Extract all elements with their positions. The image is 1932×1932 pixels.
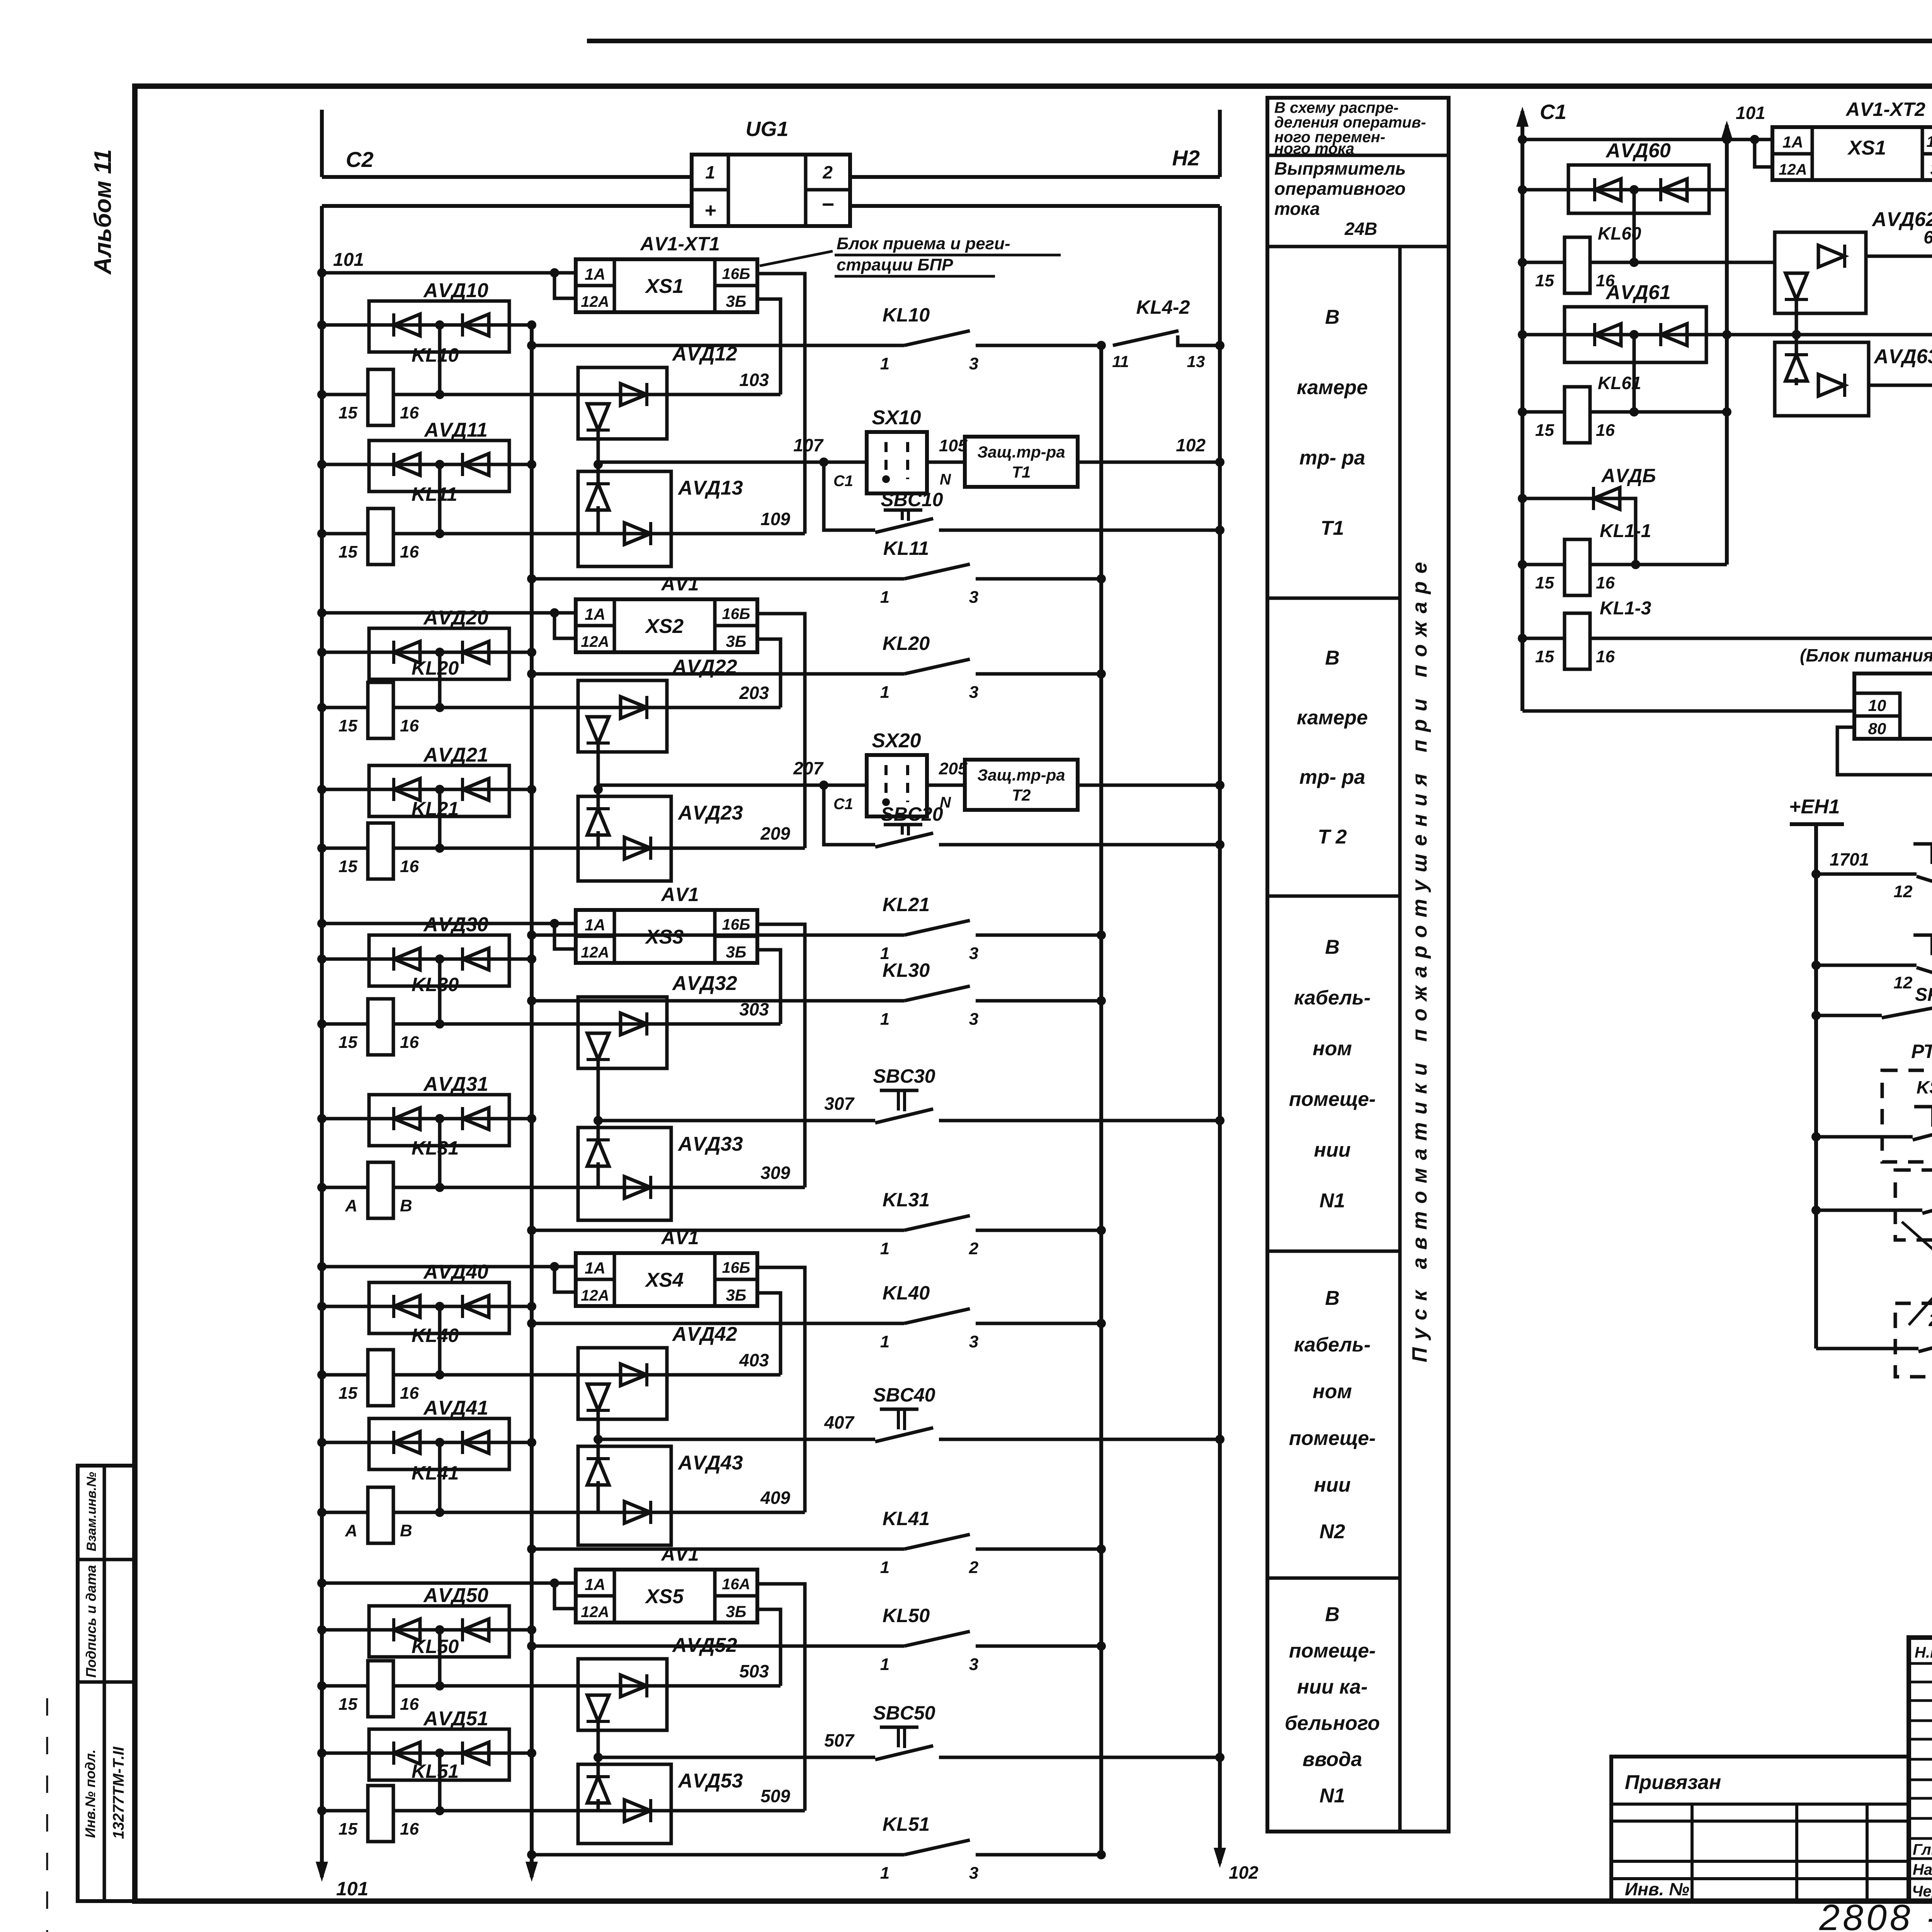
wire 16B group2 node 209 bbox=[757, 614, 805, 848]
svg-text:12: 12 bbox=[1894, 882, 1913, 901]
relay coil KL31 bbox=[317, 1137, 805, 1218]
svg-text:KL21: KL21 bbox=[883, 894, 930, 915]
svg-text:Блок приема и реги-: Блок приема и реги- bbox=[837, 234, 1010, 253]
svg-text:15: 15 bbox=[338, 857, 357, 876]
diode block AVD60 bbox=[1518, 139, 1727, 262]
svg-text:АVД53: АVД53 bbox=[677, 1770, 743, 1792]
svg-text:101: 101 bbox=[333, 250, 364, 270]
svg-text:В: В bbox=[400, 1196, 412, 1215]
svg-text:KL41: KL41 bbox=[412, 1462, 459, 1484]
left bus 101 bbox=[316, 206, 368, 1900]
svg-text:АVД13: АVД13 bbox=[677, 477, 743, 499]
svg-text:SBC10: SBC10 bbox=[881, 489, 943, 510]
svg-text:KL51: KL51 bbox=[412, 1760, 459, 1782]
svg-text:ввода: ввода bbox=[1303, 1748, 1362, 1771]
svg-text:12А: 12А bbox=[1779, 161, 1807, 178]
svg-text:KL4-2: KL4-2 bbox=[1136, 296, 1190, 318]
svg-text:103: 103 bbox=[739, 370, 769, 390]
svg-text:N1: N1 bbox=[1320, 1784, 1345, 1807]
svg-text:16А: 16А bbox=[722, 1576, 750, 1593]
svg-text:АVД31: АVД31 bbox=[423, 1073, 488, 1095]
svg-text:XS3: XS3 bbox=[645, 926, 684, 948]
svg-text:АVДБ: АVДБ bbox=[1601, 465, 1656, 486]
wire L1 group2 to XS2 bbox=[317, 608, 576, 638]
diode block АVД30 bbox=[317, 913, 536, 1024]
svg-text:3: 3 bbox=[969, 1332, 978, 1351]
contact KL1-3 12-14 wire 1701 bbox=[1811, 827, 1932, 901]
diode block АVД12 bbox=[578, 343, 737, 469]
diode block АVД53 bbox=[578, 1757, 743, 1844]
svg-text:407: 407 bbox=[824, 1412, 855, 1432]
svg-text:3Б: 3Б bbox=[726, 1602, 746, 1621]
svg-text:15: 15 bbox=[338, 1033, 357, 1052]
svg-text:С1: С1 bbox=[833, 473, 853, 490]
relay coil KL60 bbox=[1518, 223, 1775, 293]
button SBC30 node 307 bbox=[598, 1065, 1225, 1125]
svg-text:Защ.тр-ра: Защ.тр-ра bbox=[977, 443, 1065, 461]
svg-text:тр- ра: тр- ра bbox=[1299, 766, 1365, 789]
svg-text:Гл. спец: Гл. спец bbox=[1913, 1841, 1932, 1858]
svg-text:16Б: 16Б bbox=[1927, 133, 1932, 150]
svg-text:1А: 1А bbox=[585, 265, 605, 283]
svg-text:SX10: SX10 bbox=[872, 406, 921, 429]
contact KL4-2 11-13 bbox=[1112, 296, 1225, 371]
connector AV1-XT2 XS1 bbox=[1772, 99, 1932, 180]
svg-text:203: 203 bbox=[739, 683, 769, 703]
connector XS3 bbox=[576, 884, 757, 963]
svg-text:XS1: XS1 bbox=[645, 275, 684, 298]
svg-text:16: 16 bbox=[400, 1384, 419, 1403]
wire N1 from XT5 bbox=[1837, 727, 1932, 775]
svg-text:15: 15 bbox=[338, 716, 357, 735]
relay coil KL1-3 bbox=[1518, 598, 1932, 669]
switch box SX20 bbox=[598, 730, 968, 816]
svg-text:12А: 12А bbox=[581, 1604, 609, 1621]
svg-text:А: А bbox=[345, 1521, 357, 1540]
svg-text:KSV2: KSV2 bbox=[1917, 1077, 1932, 1097]
svg-text:16: 16 bbox=[400, 1695, 419, 1714]
wire 16B group5 node 509 bbox=[757, 1584, 805, 1811]
svg-text:KL11: KL11 bbox=[883, 537, 929, 559]
svg-text:АVД30: АVД30 bbox=[423, 913, 488, 936]
svg-text:Альбом 11: Альбом 11 bbox=[90, 149, 116, 275]
svg-text:101: 101 bbox=[1736, 103, 1765, 123]
contact KL10 1-3 bbox=[527, 304, 1106, 373]
diode block AVD61 bbox=[1518, 281, 1869, 412]
svg-text:Пуск автоматики пожаротушени: Пуск автоматики пожаротушения при пожаре bbox=[1408, 554, 1431, 1362]
wire 3B group4 node 403 bbox=[739, 1293, 781, 1375]
svg-text:UG1: UG1 bbox=[745, 117, 788, 141]
svg-text:307: 307 bbox=[824, 1094, 855, 1114]
switch box SX10 bbox=[598, 406, 968, 493]
button SBC50 node 507 bbox=[598, 1702, 1225, 1762]
svg-text:KL11: KL11 bbox=[412, 483, 457, 505]
svg-text:N2: N2 bbox=[1320, 1520, 1345, 1543]
relay box RT30 KSV2 bbox=[1811, 1041, 1932, 1162]
contact KL20 1-3 bbox=[527, 633, 1106, 702]
svg-text:16Б: 16Б bbox=[722, 265, 750, 282]
button SBC60 wire 607 102 bbox=[1869, 279, 1932, 339]
svg-text:SF1: SF1 bbox=[1915, 985, 1932, 1005]
left sidebar box bbox=[78, 1466, 135, 1901]
sidebar label podpis bbox=[83, 1565, 99, 1678]
relay coil KL61 bbox=[1518, 373, 1731, 443]
svg-text:3: 3 bbox=[969, 588, 978, 607]
diode AVD6 bbox=[1518, 465, 1656, 565]
svg-text:16: 16 bbox=[400, 716, 419, 735]
svg-text:3: 3 bbox=[969, 1010, 978, 1029]
svg-text:1: 1 bbox=[880, 1010, 889, 1029]
wire 3B group5 node 503 bbox=[739, 1609, 781, 1686]
protection box group2 bbox=[927, 760, 1225, 810]
node H2 bbox=[1172, 110, 1220, 177]
relay coil KL51 bbox=[317, 1760, 805, 1842]
svg-text:АVД50: АVД50 bbox=[423, 1584, 488, 1607]
svg-text:3: 3 bbox=[969, 683, 978, 702]
diode block АVД50 bbox=[317, 1584, 536, 1686]
title row N kontr bbox=[1915, 1642, 1932, 1662]
svg-text:KL61: KL61 bbox=[1598, 373, 1641, 393]
connector XS5 bbox=[576, 1543, 757, 1622]
diode block АVД22 bbox=[578, 656, 737, 794]
svg-text:1: 1 bbox=[880, 1864, 889, 1883]
svg-text:16Б: 16Б bbox=[722, 916, 750, 933]
svg-text:12А: 12А bbox=[581, 293, 609, 310]
bus 101 right bbox=[1721, 103, 1765, 565]
contact KL41 bbox=[527, 1508, 1106, 1577]
svg-text:KL21: KL21 bbox=[412, 798, 459, 820]
svg-text:камере: камере bbox=[1297, 376, 1368, 399]
svg-text:16: 16 bbox=[400, 403, 419, 422]
svg-text:1701: 1701 bbox=[1830, 849, 1869, 869]
svg-text:С1: С1 bbox=[1540, 100, 1566, 124]
svg-text:80: 80 bbox=[1868, 719, 1886, 738]
svg-text:АVД21: АVД21 bbox=[423, 744, 488, 766]
svg-text:1: 1 bbox=[880, 354, 889, 373]
svg-text:KL1-1: KL1-1 bbox=[1600, 521, 1651, 541]
legend cell 1 bbox=[1297, 306, 1368, 539]
svg-text:3Б: 3Б bbox=[726, 632, 746, 650]
svg-text:24В: 24В bbox=[1344, 219, 1377, 239]
wire L1 group4 to XS4 bbox=[317, 1262, 576, 1292]
svg-text:оперативного: оперативного bbox=[1274, 179, 1406, 199]
contact KL5 12-14 bbox=[1811, 920, 1932, 992]
svg-text:1: 1 bbox=[880, 1239, 889, 1258]
contact KL11 bbox=[527, 537, 1106, 607]
wire C1 to XT2 bbox=[1518, 135, 1772, 167]
svg-text:XS5: XS5 bbox=[645, 1585, 684, 1608]
svg-text:15: 15 bbox=[338, 403, 357, 422]
svg-text:В: В bbox=[1325, 1287, 1340, 1310]
svg-text:С1: С1 bbox=[833, 796, 853, 813]
legend header vypryamitel bbox=[1274, 158, 1406, 239]
svg-text:SBC40: SBC40 bbox=[873, 1384, 935, 1406]
svg-text:АV1: АV1 bbox=[660, 1543, 699, 1565]
relay coil KL11 bbox=[317, 483, 805, 565]
svg-text:KL20: KL20 bbox=[883, 633, 930, 654]
svg-text:KL31: KL31 bbox=[412, 1137, 459, 1159]
contact SF1 wire 907 bbox=[1811, 985, 1932, 1020]
svg-text:Инв.№ подл.: Инв.№ подл. bbox=[82, 1749, 98, 1838]
svg-text:207: 207 bbox=[793, 758, 824, 778]
relay coil KL20 bbox=[317, 657, 781, 738]
svg-text:В: В bbox=[1325, 647, 1340, 669]
svg-text:3: 3 bbox=[969, 1655, 978, 1674]
right bus 102 bbox=[1214, 206, 1259, 1883]
wire L1 group3 to XS3 bbox=[317, 919, 576, 949]
svg-text:1: 1 bbox=[705, 162, 715, 182]
svg-text:12А: 12А bbox=[581, 633, 609, 650]
svg-text:АV1-ХТ1: АV1-ХТ1 bbox=[639, 233, 720, 255]
album label bbox=[90, 149, 116, 275]
svg-text:13: 13 bbox=[1187, 352, 1205, 371]
legend cell 3 bbox=[1267, 896, 1400, 1212]
title row nach gr bbox=[1913, 1860, 1932, 1878]
contact KL51 bbox=[527, 1813, 1106, 1883]
svg-text:Подпись и дата: Подпись и дата bbox=[83, 1565, 99, 1678]
contact KL40 1-3 bbox=[527, 1282, 1106, 1351]
svg-text:АVД43: АVД43 bbox=[677, 1452, 743, 1474]
svg-text:10: 10 bbox=[1868, 696, 1886, 714]
wire 16B group1 node 109 bbox=[757, 274, 805, 534]
svg-text:209: 209 bbox=[760, 823, 790, 844]
svg-text:15: 15 bbox=[338, 543, 357, 561]
svg-text:1: 1 bbox=[880, 588, 889, 607]
svg-text:Т 2: Т 2 bbox=[1318, 826, 1347, 848]
rectifier UG1 bbox=[692, 117, 850, 226]
svg-text:С2: С2 bbox=[346, 147, 374, 172]
svg-text:А: А bbox=[345, 1196, 357, 1215]
diode block АVД10 bbox=[317, 279, 536, 395]
sidebar number 13277 bbox=[110, 1747, 127, 1839]
diode block АVД20 bbox=[317, 607, 536, 707]
svg-text:АVД33: АVД33 bbox=[677, 1133, 743, 1155]
svg-text:SBC20: SBC20 bbox=[881, 803, 943, 825]
svg-text:АVД61: АVД61 bbox=[1605, 281, 1671, 304]
legend column frame bbox=[1267, 98, 1449, 1832]
svg-text:15: 15 bbox=[1535, 647, 1554, 666]
svg-text:Выпрямитель: Выпрямитель bbox=[1274, 158, 1406, 179]
svg-text:KL50: KL50 bbox=[883, 1605, 930, 1626]
legend cell 2 bbox=[1267, 598, 1400, 848]
wire 16B group4 node 409 bbox=[757, 1267, 805, 1512]
svg-text:АVД63: АVД63 bbox=[1873, 345, 1932, 368]
svg-text:102: 102 bbox=[1176, 435, 1206, 455]
svg-text:XS4: XS4 bbox=[645, 1269, 684, 1291]
wire 3B group3 node 303 bbox=[739, 950, 781, 1024]
svg-text:АV1: АV1 bbox=[660, 1227, 699, 1248]
diode block АVД23 bbox=[578, 789, 743, 881]
svg-text:нии: нии bbox=[1314, 1474, 1351, 1496]
svg-text:Инв. №: Инв. № bbox=[1625, 1879, 1689, 1899]
svg-text:+ЕН1: +ЕН1 bbox=[1789, 796, 1840, 818]
svg-text:В: В bbox=[400, 1521, 412, 1540]
note power block AV1 bbox=[1800, 645, 1932, 665]
svg-text:15: 15 bbox=[338, 1695, 357, 1714]
wire left bus plus bbox=[322, 204, 692, 208]
svg-text:101: 101 bbox=[336, 1878, 368, 1900]
svg-text:16: 16 bbox=[400, 1033, 419, 1052]
svg-text:KL50: KL50 bbox=[412, 1636, 459, 1657]
svg-text:KL30: KL30 bbox=[412, 974, 459, 995]
svg-text:15: 15 bbox=[1535, 573, 1554, 592]
svg-text:11: 11 bbox=[1112, 352, 1129, 371]
svg-text:3Б: 3Б bbox=[1930, 160, 1932, 178]
sensor 1BL bbox=[1811, 1170, 1932, 1240]
svg-text:АV1-ХТ2: АV1-ХТ2 bbox=[1845, 99, 1925, 120]
svg-text:KL40: KL40 bbox=[412, 1325, 459, 1346]
contact KL50 1-3 bbox=[527, 1605, 1106, 1674]
svg-text:В: В bbox=[1325, 306, 1340, 328]
svg-text:15: 15 bbox=[338, 1820, 357, 1838]
button SBC20 bbox=[824, 785, 1225, 849]
relay coil KL40 bbox=[317, 1325, 781, 1406]
svg-text:ном: ном bbox=[1313, 1037, 1352, 1060]
svg-text:(Блок питания - БП) АV1 Стан: (Блок питания - БП) АV1 Станция пожарной… bbox=[1800, 645, 1932, 665]
svg-text:АVД40: АVД40 bbox=[423, 1261, 488, 1283]
svg-text:107: 107 bbox=[793, 435, 824, 455]
relay coil KL50 bbox=[317, 1636, 781, 1717]
svg-text:ном: ном bbox=[1313, 1381, 1352, 1403]
svg-text:АV1: АV1 bbox=[660, 573, 699, 595]
svg-text:509: 509 bbox=[760, 1786, 790, 1806]
node C1 bbox=[1516, 100, 1566, 711]
connector XS4 bbox=[576, 1227, 757, 1306]
svg-text:АVД20: АVД20 bbox=[423, 607, 488, 629]
svg-text:Т1: Т1 bbox=[1321, 517, 1344, 539]
svg-text:камере: камере bbox=[1297, 706, 1368, 729]
svg-text:16: 16 bbox=[400, 1820, 419, 1838]
sidebar label vzam bbox=[84, 1472, 99, 1551]
svg-text:15: 15 bbox=[1535, 271, 1554, 290]
svg-text:страции БПР: страции БПР bbox=[837, 255, 953, 274]
top border rule bbox=[587, 39, 1932, 43]
svg-text:15: 15 bbox=[338, 1384, 357, 1403]
svg-text:Привязан: Привязан bbox=[1625, 1771, 1721, 1794]
svg-text:В: В bbox=[1325, 936, 1340, 958]
diode block АVД33 bbox=[578, 1121, 743, 1220]
svg-text:кабель-: кабель- bbox=[1294, 987, 1371, 1009]
button SBC40 node 407 bbox=[598, 1384, 1225, 1444]
svg-text:KL41: KL41 bbox=[883, 1508, 930, 1529]
svg-text:16Б: 16Б bbox=[722, 1259, 750, 1276]
svg-text:12А: 12А bbox=[581, 944, 609, 961]
connector XS2 bbox=[576, 573, 757, 652]
svg-text:SX20: SX20 bbox=[872, 730, 921, 752]
svg-text:Н.контр: Н.контр bbox=[1915, 1644, 1932, 1661]
legend cell 5 bbox=[1267, 1578, 1400, 1807]
svg-text:13277ТМ-Т.II: 13277ТМ-Т.II bbox=[110, 1747, 127, 1839]
svg-text:3: 3 bbox=[969, 1864, 978, 1883]
svg-text:АVД32: АVД32 bbox=[672, 972, 737, 995]
svg-text:3Б: 3Б bbox=[726, 1286, 746, 1304]
svg-text:+: + bbox=[704, 199, 716, 222]
note sensor urovnya bbox=[1902, 1222, 1932, 1325]
svg-text:Т2: Т2 bbox=[1012, 786, 1031, 804]
svg-text:XS1: XS1 bbox=[1847, 137, 1886, 159]
wire UG1 minus to right bus bbox=[850, 204, 1220, 208]
svg-text:12А: 12А bbox=[581, 1287, 609, 1304]
svg-text:Взам.инв.№: Взам.инв.№ bbox=[84, 1472, 99, 1551]
diode block AVD63 bbox=[1775, 335, 1932, 416]
svg-text:ного тока: ного тока bbox=[1274, 140, 1354, 157]
svg-text:109: 109 bbox=[760, 509, 790, 529]
protection box group1 bbox=[927, 435, 1225, 487]
svg-text:РТ30: РТ30 bbox=[1911, 1041, 1932, 1062]
svg-text:2808 - 05: 2808 - 05 bbox=[1819, 1897, 1932, 1932]
svg-text:АVД60: АVД60 bbox=[1605, 139, 1671, 162]
svg-text:АVД62: АVД62 bbox=[1871, 208, 1932, 231]
wire UG1 to H2 bbox=[850, 175, 1220, 179]
button SBC10 bbox=[824, 462, 1225, 535]
svg-text:Т1: Т1 bbox=[1012, 463, 1031, 481]
relay coil KL41 bbox=[317, 1462, 805, 1543]
svg-text:16: 16 bbox=[1596, 573, 1615, 592]
svg-text:KL20: KL20 bbox=[412, 657, 459, 679]
note BPR bbox=[760, 234, 1061, 276]
node C2 bbox=[322, 110, 374, 177]
diode block АVД42 bbox=[578, 1323, 737, 1444]
svg-text:1А: 1А bbox=[585, 605, 605, 623]
svg-text:KL40: KL40 bbox=[883, 1282, 930, 1304]
svg-text:1: 1 bbox=[880, 1558, 889, 1577]
svg-text:3Б: 3Б bbox=[726, 292, 746, 310]
svg-text:кабель-: кабель- bbox=[1294, 1334, 1371, 1356]
svg-text:2BL: 2BL bbox=[1929, 1310, 1932, 1330]
node +EH1 bbox=[1789, 796, 1844, 1349]
title row chert kon bbox=[1912, 1883, 1932, 1900]
svg-text:помеще-: помеще- bbox=[1289, 1088, 1376, 1111]
legend strip pusk bbox=[1408, 554, 1431, 1362]
diode block АVД40 bbox=[317, 1261, 536, 1375]
collector bus 11 bbox=[1099, 345, 1103, 1855]
diode block АVД11 bbox=[317, 419, 536, 534]
svg-text:603: 603 bbox=[1923, 227, 1932, 247]
svg-text:503: 503 bbox=[739, 1661, 769, 1681]
svg-text:N1: N1 bbox=[1320, 1190, 1345, 1212]
legend cell 4 bbox=[1267, 1251, 1400, 1543]
relay coil KL1-1 bbox=[1518, 521, 1727, 595]
diode block АVД52 bbox=[578, 1634, 737, 1762]
svg-text:16: 16 bbox=[1596, 421, 1615, 440]
wire L1 group5 to XS5 bbox=[317, 1578, 576, 1609]
svg-text:12: 12 bbox=[1894, 973, 1913, 992]
fold mark dashed line bbox=[46, 1698, 48, 1932]
diode block АVД21 bbox=[317, 744, 536, 848]
terminal block XT5 bbox=[1522, 673, 1932, 739]
svg-text:помеще-: помеще- bbox=[1289, 1639, 1376, 1662]
title privyazan table bbox=[1611, 1757, 1909, 1901]
wire 609 bbox=[1869, 356, 1932, 448]
legend header raspredeleniya bbox=[1274, 99, 1426, 157]
svg-text:АVД23: АVД23 bbox=[677, 802, 743, 824]
svg-text:403: 403 bbox=[739, 1350, 769, 1370]
svg-text:1А: 1А bbox=[585, 1259, 605, 1277]
svg-text:Н2: Н2 bbox=[1172, 146, 1200, 170]
svg-text:3: 3 bbox=[969, 944, 978, 963]
svg-text:1: 1 bbox=[880, 1332, 889, 1351]
svg-text:Защ.тр-ра: Защ.тр-ра bbox=[977, 766, 1065, 784]
svg-text:нии ка-: нии ка- bbox=[1297, 1676, 1368, 1698]
contact KL31 bbox=[527, 1189, 1106, 1258]
svg-text:KL1-3: KL1-3 bbox=[1600, 598, 1651, 619]
wire 3B group2 node 203 bbox=[739, 639, 781, 707]
svg-text:1А: 1А bbox=[1782, 133, 1803, 151]
svg-text:16Б: 16Б bbox=[722, 605, 750, 622]
svg-text:102: 102 bbox=[1229, 1862, 1259, 1883]
return bus bbox=[526, 325, 538, 1882]
svg-text:АVД10: АVД10 bbox=[423, 279, 488, 302]
